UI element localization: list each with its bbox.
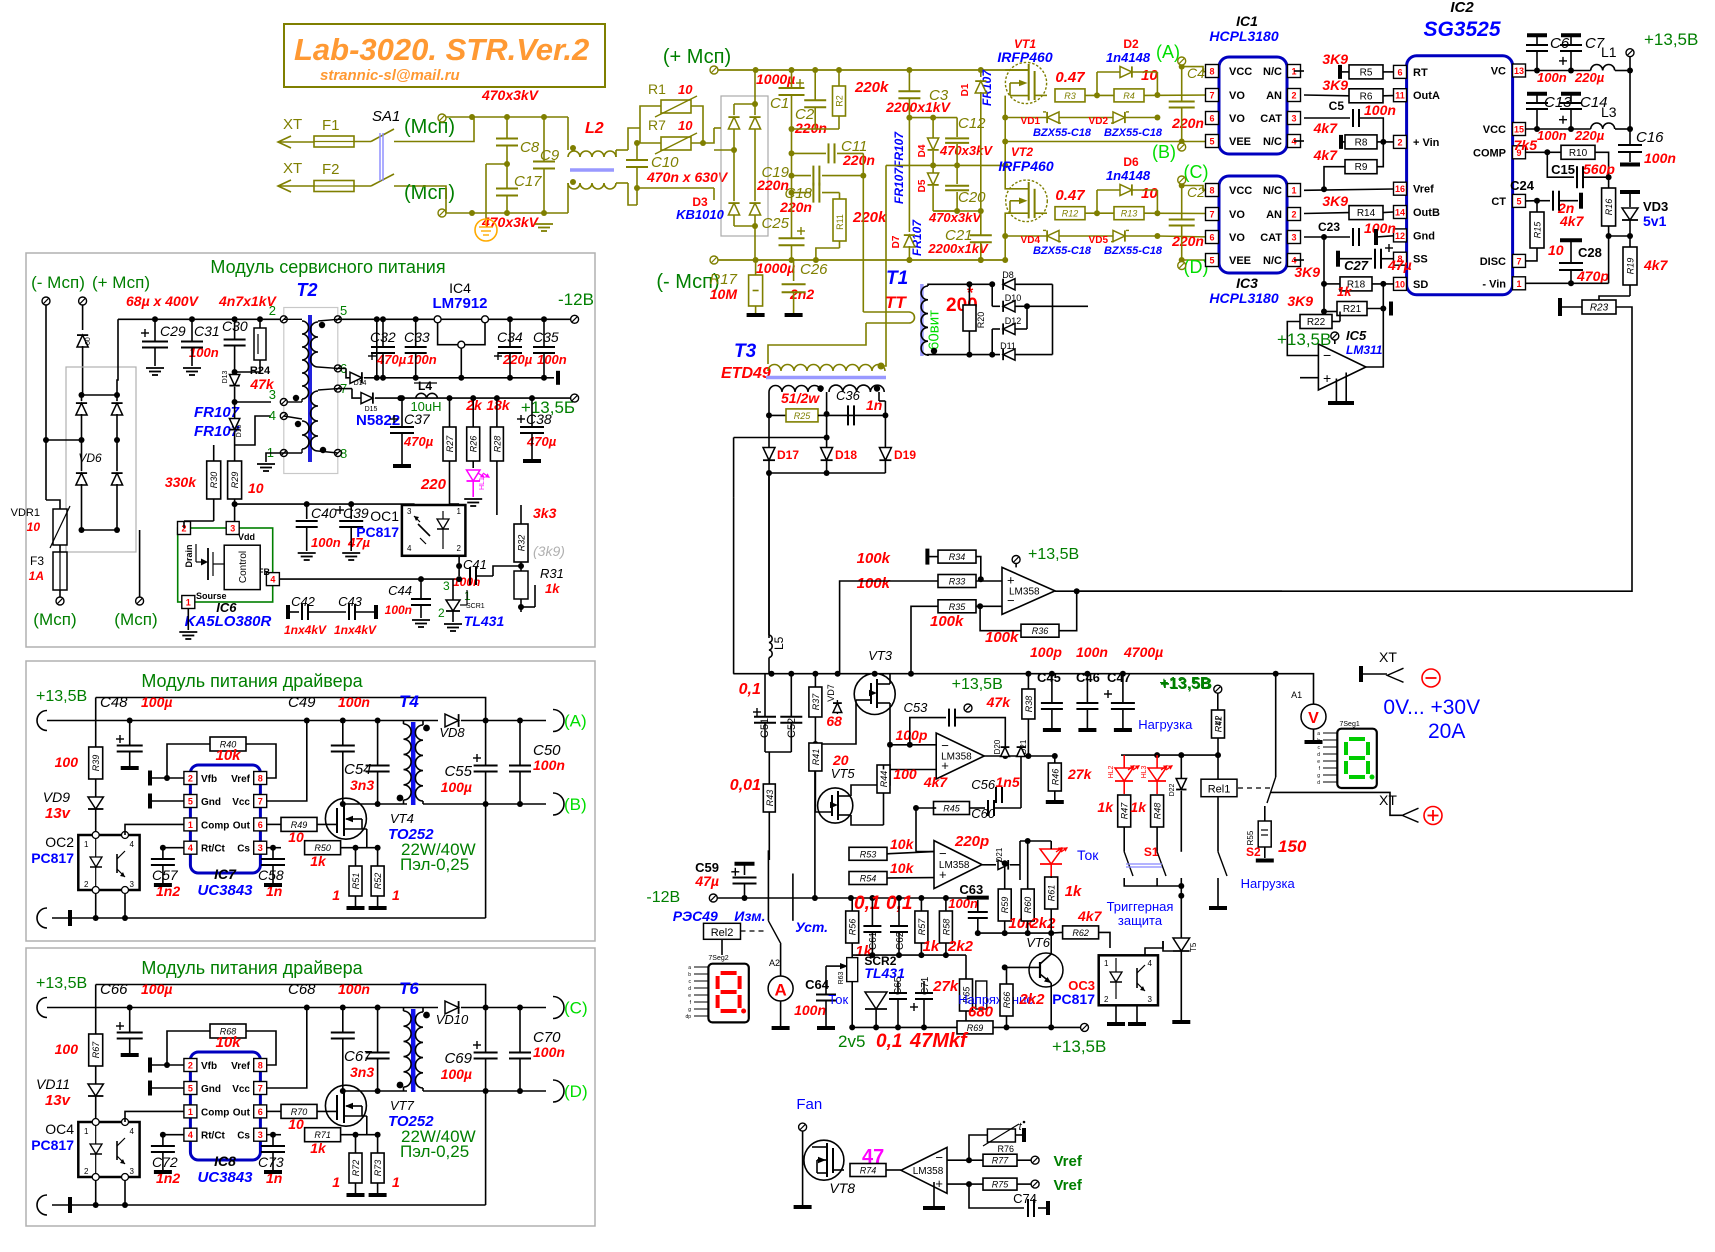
junction <box>160 845 166 851</box>
wire opamp2 out zeners <box>984 755 1021 757</box>
capacitor C67 body <box>377 1008 379 1053</box>
svg-text:(D): (D) <box>1184 257 1209 277</box>
svg-text:Drain: Drain <box>184 544 194 567</box>
tbar Gnd <box>148 1081 152 1096</box>
svg-text:6: 6 <box>1209 233 1214 243</box>
svg-text:100n: 100n <box>537 352 567 367</box>
svg-text:-12В: -12В <box>646 889 680 906</box>
pin 4 IC6 <box>266 573 279 586</box>
T2 core <box>308 315 312 462</box>
svg-text:R14: R14 <box>1357 208 1376 219</box>
junction <box>127 718 133 724</box>
junction <box>232 369 238 375</box>
junction <box>931 348 937 354</box>
junction <box>413 316 419 322</box>
ground opamp4 <box>933 1182 935 1206</box>
resistor R36 <box>1021 624 1059 637</box>
svg-text:PC817: PC817 <box>31 1137 74 1153</box>
wire midpoint column <box>1004 96 1006 166</box>
svg-text:VD1: VD1 <box>1021 116 1041 127</box>
junction <box>908 671 914 677</box>
svg-text:OutA: OutA <box>1413 90 1440 102</box>
svg-text:2: 2 <box>269 303 276 318</box>
junction <box>518 563 524 569</box>
svg-text:HCPL3180: HCPL3180 <box>1209 28 1278 44</box>
svg-text:C67: C67 <box>344 1048 372 1065</box>
junction <box>700 140 706 146</box>
svg-text:−: − <box>1323 347 1331 363</box>
resistor R35 <box>938 600 976 613</box>
junction <box>978 257 984 263</box>
svg-text:R62: R62 <box>1072 928 1089 938</box>
junction <box>353 1132 359 1138</box>
svg-text:R39: R39 <box>91 755 101 772</box>
pin 5 of IC3 <box>1206 254 1219 267</box>
wire blade to A2 <box>780 944 782 976</box>
wire IC3 CAT column <box>1323 237 1325 284</box>
transformer T3 primary <box>768 365 885 372</box>
svg-text:100n: 100n <box>311 535 341 550</box>
wire feedback right <box>1077 330 1632 591</box>
pin 6 IC8 <box>254 1105 267 1118</box>
svg-text:C45: C45 <box>1037 670 1061 685</box>
svg-text:e: e <box>688 993 691 999</box>
input arc bottom <box>37 1195 47 1215</box>
svg-text:1: 1 <box>332 887 340 903</box>
junction <box>1568 68 1574 74</box>
svg-text:R77: R77 <box>992 1156 1010 1166</box>
svg-text:A2: A2 <box>769 958 780 968</box>
junction <box>906 257 912 263</box>
svg-text:1k: 1k <box>923 938 940 955</box>
svg-text:+: + <box>1323 370 1331 386</box>
svg-text:0.47: 0.47 <box>1055 187 1085 204</box>
svg-text:Gnd: Gnd <box>201 1084 221 1095</box>
svg-text:220n: 220n <box>779 199 812 215</box>
svg-text:4700µ: 4700µ <box>1123 644 1163 660</box>
B rail <box>423 803 546 805</box>
svg-text:15: 15 <box>1514 125 1524 135</box>
input arc bottom <box>37 908 47 928</box>
resistor R29 <box>228 461 242 499</box>
svg-text:220µ: 220µ <box>1574 70 1605 85</box>
svg-text:C63: C63 <box>959 882 983 897</box>
junction <box>348 501 354 507</box>
svg-text:R31: R31 <box>540 566 564 581</box>
junction <box>975 930 981 936</box>
resistor R44 <box>877 765 890 793</box>
svg-text:R52: R52 <box>373 873 383 890</box>
svg-text:R47: R47 <box>1120 802 1130 820</box>
wire T1 primary loop <box>862 176 864 312</box>
junction <box>1025 671 1031 677</box>
svg-text:13: 13 <box>1514 66 1524 76</box>
junction <box>1002 139 1008 145</box>
svg-text:VO: VO <box>1229 232 1245 244</box>
svg-text:3n3: 3n3 <box>350 1064 374 1080</box>
svg-text:2: 2 <box>457 544 462 553</box>
pin 15 VCC of IC2 <box>1513 123 1526 136</box>
terminal +13.5 bottom <box>1081 1023 1089 1031</box>
svg-text:C42: C42 <box>291 594 316 609</box>
svg-text:C28: C28 <box>1578 245 1602 260</box>
T2 secondary bottom <box>318 389 338 390</box>
wire VT1 drain from bus <box>1005 69 1028 71</box>
svg-text:R28: R28 <box>492 436 502 453</box>
junction <box>114 392 120 398</box>
svg-text:VCC: VCC <box>1229 66 1252 78</box>
wire B to bottom rail <box>485 804 487 918</box>
wire -Vin <box>1526 282 1609 284</box>
svg-text:51/2w: 51/2w <box>781 390 820 406</box>
wire pin2 drain <box>184 520 214 522</box>
svg-text:3: 3 <box>230 524 235 534</box>
junction <box>913 805 919 811</box>
dashed link Rel2 <box>741 930 767 932</box>
svg-text:TL431: TL431 <box>464 613 505 629</box>
junction <box>418 576 424 582</box>
pwm controller IC7 UC3843 box <box>190 765 260 873</box>
junction <box>742 895 748 901</box>
svg-text:DISC: DISC <box>1480 256 1506 268</box>
junction <box>978 257 984 263</box>
svg-text:C6: C6 <box>1550 35 1570 52</box>
wire to T2 pin4 <box>235 416 271 445</box>
junction <box>813 257 819 263</box>
svg-text:R25: R25 <box>794 411 812 421</box>
svg-text:0.47: 0.47 <box>1055 69 1085 86</box>
shunt TL431 SCR2 <box>865 992 887 1009</box>
resistor R43 <box>763 784 775 812</box>
junction <box>1025 930 1031 936</box>
svg-text:Vref: Vref <box>1054 1153 1083 1170</box>
tbar bottom input <box>68 910 72 926</box>
junction <box>570 179 576 185</box>
resistor R56 <box>846 911 859 943</box>
junction <box>954 162 960 168</box>
junction <box>374 316 380 322</box>
wire thermistor connections <box>640 106 661 128</box>
svg-text:C39: C39 <box>343 505 369 521</box>
resistor R69 <box>957 1021 993 1034</box>
pin 16 Vref of IC2 <box>1394 182 1407 195</box>
svg-text:R29: R29 <box>230 472 240 489</box>
resistor R50 <box>305 841 341 855</box>
svg-text:CT: CT <box>1491 196 1506 208</box>
wire T1 sec top <box>928 284 992 286</box>
junction <box>887 742 893 748</box>
wire VT6 emitter <box>1050 983 1052 1027</box>
svg-text:T2: T2 <box>296 280 317 300</box>
svg-text:6: 6 <box>258 820 263 830</box>
svg-text:- Vin: - Vin <box>1482 278 1506 290</box>
resistor R74 <box>850 1164 886 1177</box>
svg-text:VO: VO <box>1229 90 1245 102</box>
resistor R49 <box>281 817 317 831</box>
svg-text:SS: SS <box>1413 254 1428 266</box>
capacitor C48 body <box>116 738 124 740</box>
svg-text:1: 1 <box>392 887 400 903</box>
svg-text:e: e <box>1317 759 1320 765</box>
junction <box>504 161 510 167</box>
junction <box>1002 115 1008 121</box>
svg-text:0,1: 0,1 <box>854 893 880 914</box>
junction <box>752 101 758 107</box>
svg-text:C16: C16 <box>1636 129 1664 146</box>
ground IC5 <box>1335 379 1337 402</box>
pin4 stub IC1 <box>1294 140 1304 142</box>
svg-text:(+ Мсп): (+ Мсп) <box>92 273 150 292</box>
junction <box>257 316 263 322</box>
svg-text:1: 1 <box>84 840 89 849</box>
svg-text:Cs: Cs <box>237 1131 250 1142</box>
ammeter A1 wire <box>1276 674 1314 704</box>
wire VEE row 1 <box>1005 141 1212 143</box>
junction <box>1179 257 1185 263</box>
svg-text:IC7: IC7 <box>214 866 237 882</box>
pin 8 of IC1 <box>1206 65 1219 78</box>
svg-text:4: 4 <box>188 843 193 853</box>
svg-text:1nx4kV: 1nx4kV <box>334 623 377 637</box>
bridge rectifier D3 box <box>721 96 768 236</box>
svg-text:OutB: OutB <box>1413 207 1440 219</box>
junction <box>304 501 310 507</box>
wire R27 to OC1 pin1 <box>450 503 460 505</box>
junction <box>978 208 984 214</box>
svg-text:R67: R67 <box>91 1041 101 1059</box>
capacitor C53 body <box>910 718 946 745</box>
junction <box>895 1024 901 1030</box>
terminal -12V rail <box>709 894 717 902</box>
svg-text:LM358: LM358 <box>913 1166 944 1177</box>
capacitor C66 body <box>116 1025 124 1027</box>
svg-text:C40: C40 <box>311 505 337 521</box>
title box <box>284 24 605 87</box>
wire OC4 pin3 down <box>124 1181 126 1205</box>
ground R17 <box>747 313 765 317</box>
junction <box>789 257 795 263</box>
junction <box>1025 838 1031 844</box>
pin 1 of IC1 <box>1288 65 1301 78</box>
junction <box>152 316 158 322</box>
svg-text:IC4: IC4 <box>449 280 471 296</box>
svg-text:3: 3 <box>407 507 412 516</box>
wire T1 sec bottom <box>928 355 1000 356</box>
svg-text:защита: защита <box>1118 913 1163 928</box>
junction <box>1002 860 1008 866</box>
svg-text:100k: 100k <box>857 575 891 592</box>
junction <box>1606 174 1612 180</box>
svg-text:1n5: 1n5 <box>996 774 1020 790</box>
junction <box>943 895 949 901</box>
relay Rel2 <box>704 923 741 939</box>
resistor R15 <box>1530 212 1544 248</box>
resistor R72 <box>349 1153 362 1183</box>
svg-text:C57: C57 <box>152 867 179 883</box>
svg-text:2k2: 2k2 <box>1029 915 1056 932</box>
svg-text:Пэл-0,25: Пэл-0,25 <box>400 1142 469 1161</box>
svg-text:VD9: VD9 <box>43 789 70 805</box>
resistor R57 <box>915 911 928 943</box>
svg-text:100n: 100n <box>385 603 412 617</box>
pin 8 IC7 <box>254 772 267 785</box>
junction <box>380 316 386 322</box>
opamp supply terminal 2 <box>964 704 972 712</box>
svg-text:+13,5B: +13,5B <box>1644 30 1698 49</box>
svg-text:C33: C33 <box>404 329 430 345</box>
wire VC rail <box>1526 70 1591 72</box>
svg-text:F3: F3 <box>30 554 44 568</box>
svg-text:10: 10 <box>288 1116 304 1132</box>
svg-text:C53: C53 <box>904 700 929 715</box>
svg-text:R58: R58 <box>941 919 951 936</box>
svg-text:(Мсп): (Мсп) <box>114 610 157 629</box>
svg-text:1k: 1k <box>310 1140 327 1156</box>
resistor R60 <box>1021 889 1034 921</box>
svg-text:C56: C56 <box>971 777 996 792</box>
terminal minus circle <box>1422 669 1440 687</box>
resistor R32 <box>514 524 528 562</box>
pin 1 IC6 <box>182 596 195 609</box>
svg-text:2: 2 <box>188 774 193 784</box>
svg-text:1k: 1k <box>1337 284 1352 299</box>
svg-text:VCC: VCC <box>1483 124 1506 136</box>
wire S1 out <box>1124 878 1181 886</box>
B rail <box>423 1090 546 1092</box>
svg-text:T5: T5 <box>1189 942 1198 952</box>
svg-text:C20: C20 <box>958 189 986 206</box>
svg-text:220k: 220k <box>852 209 887 226</box>
junction <box>122 1202 128 1208</box>
svg-text:1000µ: 1000µ <box>756 71 795 87</box>
svg-text:220: 220 <box>420 476 447 493</box>
terminal B arc <box>553 1080 564 1102</box>
svg-text:7: 7 <box>258 797 263 807</box>
junction <box>1321 281 1327 287</box>
svg-text:330k: 330k <box>165 474 197 490</box>
svg-text:D7: D7 <box>891 235 902 248</box>
wire opamp3 out <box>982 864 996 866</box>
svg-text:*: * <box>967 285 974 302</box>
junction <box>954 208 960 214</box>
svg-text:1n: 1n <box>866 397 882 413</box>
junction <box>517 1088 523 1094</box>
junction <box>906 257 912 263</box>
junction <box>541 114 547 120</box>
svg-text:PC817: PC817 <box>31 850 74 866</box>
svg-text:220k: 220k <box>854 79 889 96</box>
svg-text:Ток: Ток <box>1077 847 1099 863</box>
svg-text:C55: C55 <box>444 763 472 780</box>
svg-text:SCR1: SCR1 <box>466 603 485 610</box>
resistor R75 <box>983 1178 1017 1190</box>
resistor R51 <box>349 866 362 896</box>
svg-text:+13,5В: +13,5В <box>1052 1037 1106 1056</box>
svg-text:7k5: 7k5 <box>1514 137 1538 153</box>
svg-text:C47: C47 <box>1107 670 1131 685</box>
module box service power <box>26 253 595 647</box>
junction <box>1534 198 1540 204</box>
resistor R33 <box>938 575 976 588</box>
transformer T1 core <box>920 284 924 356</box>
svg-text:CAT: CAT <box>1260 232 1282 244</box>
junction <box>906 115 912 121</box>
pin 6 IC7 <box>254 818 267 831</box>
svg-text:(B): (B) <box>1152 142 1176 162</box>
svg-text:6: 6 <box>258 1107 263 1117</box>
junction <box>1154 752 1160 758</box>
svg-text:100n: 100n <box>533 1044 565 1060</box>
svg-text:100: 100 <box>55 754 79 770</box>
svg-text:470n x 630V: 470n x 630V <box>646 169 729 185</box>
svg-text:D19: D19 <box>894 448 916 462</box>
svg-text:R23: R23 <box>1590 303 1609 314</box>
svg-text:D13: D13 <box>222 370 229 383</box>
junction <box>769 671 775 677</box>
svg-text:R72: R72 <box>351 1160 361 1177</box>
svg-text:10: 10 <box>1395 279 1405 289</box>
svg-text:FR107: FR107 <box>892 131 906 168</box>
svg-text:Уст.: Уст. <box>795 919 828 935</box>
junction <box>114 527 120 533</box>
svg-text:BZX55-C18: BZX55-C18 <box>1033 127 1092 139</box>
bridge VD6 wires <box>81 395 83 401</box>
svg-text:5v1: 5v1 <box>1643 213 1667 229</box>
junction <box>1048 930 1054 936</box>
svg-text:10k: 10k <box>890 836 915 852</box>
junction <box>517 1005 523 1011</box>
transformer T6 secondary coil <box>422 1008 424 1013</box>
svg-text:4: 4 <box>270 575 275 585</box>
svg-text:R16: R16 <box>1604 199 1614 216</box>
svg-text:Rt/Ct: Rt/Ct <box>201 844 226 855</box>
svg-text:8: 8 <box>258 774 263 784</box>
transformer T6 primary coil <box>403 1008 405 1012</box>
junction <box>270 845 276 851</box>
svg-text:1k: 1k <box>1065 883 1082 900</box>
junction <box>1179 64 1185 70</box>
junction <box>423 1012 430 1019</box>
svg-text:100k: 100k <box>857 550 891 567</box>
wire B to bottom rail <box>485 1091 487 1205</box>
module box driver <box>26 661 595 941</box>
svg-text:T1: T1 <box>886 268 908 289</box>
control block <box>224 545 260 589</box>
switch output <box>1267 777 1276 803</box>
wire C64 to pot wiper <box>826 965 840 967</box>
svg-text:220µ: 220µ <box>502 352 533 367</box>
wire T3 sec left down <box>768 392 770 415</box>
junction <box>753 67 759 73</box>
svg-text:220µ: 220µ <box>1574 128 1605 143</box>
svg-text:LM358: LM358 <box>1009 586 1040 597</box>
junction <box>1534 126 1540 132</box>
svg-text:Lab-3020. STR.Ver.2: Lab-3020. STR.Ver.2 <box>294 32 589 67</box>
pin 3 of IC1 <box>1288 112 1301 125</box>
svg-text:FR107: FR107 <box>892 167 906 204</box>
junction <box>978 67 984 73</box>
svg-text:IRFP460: IRFP460 <box>998 158 1053 174</box>
svg-text:C31: C31 <box>194 323 220 339</box>
capacitor C54 body <box>377 721 379 766</box>
svg-text:10: 10 <box>678 82 693 97</box>
svg-text:3: 3 <box>1291 233 1296 243</box>
junction <box>1074 588 1080 594</box>
junction <box>469 114 475 120</box>
svg-text:C72: C72 <box>152 1154 178 1170</box>
junction <box>399 395 405 401</box>
svg-text:+13,5В: +13,5В <box>36 688 87 705</box>
